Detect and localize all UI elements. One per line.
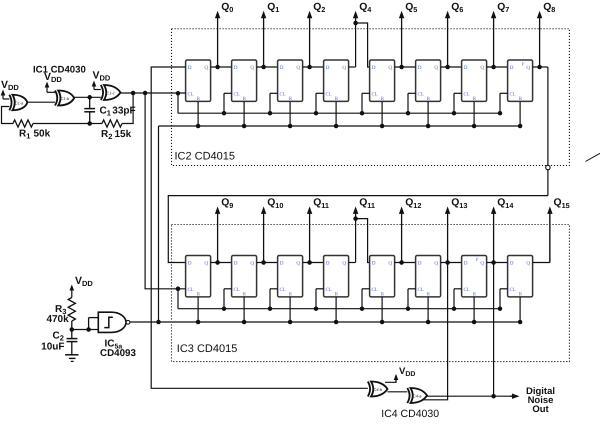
svg-text:F: F xyxy=(476,257,479,263)
svg-text:D: D xyxy=(372,261,376,267)
svg-text:CL: CL xyxy=(234,287,240,293)
svg-text:Q: Q xyxy=(526,65,530,71)
svg-text:IC1-b: IC1-b xyxy=(59,96,70,101)
svg-text:IC1-a: IC1-a xyxy=(14,101,25,106)
svg-text:33pF: 33pF xyxy=(112,106,135,117)
svg-text:CL: CL xyxy=(372,287,378,293)
svg-text:Q: Q xyxy=(526,261,530,267)
svg-text:D: D xyxy=(418,65,422,71)
svg-text:CL: CL xyxy=(418,91,424,97)
svg-text:Q: Q xyxy=(434,65,438,71)
svg-text:Q: Q xyxy=(388,65,392,71)
svg-text:CL: CL xyxy=(280,91,286,97)
svg-text:CL: CL xyxy=(326,91,332,97)
svg-text:D: D xyxy=(464,261,468,267)
svg-text:F: F xyxy=(522,61,525,67)
svg-text:D: D xyxy=(418,261,422,267)
svg-text:CL: CL xyxy=(464,91,470,97)
svg-text:IC1 CD4030: IC1 CD4030 xyxy=(33,65,86,76)
svg-text:CL: CL xyxy=(234,91,240,97)
svg-text:D: D xyxy=(280,261,284,267)
svg-text:IC3 CD4015: IC3 CD4015 xyxy=(177,343,238,355)
svg-text:IC1-c: IC1-c xyxy=(105,91,115,96)
svg-text:CL: CL xyxy=(510,91,516,97)
svg-text:D: D xyxy=(510,261,514,267)
svg-text:D: D xyxy=(326,65,330,71)
svg-text:Q: Q xyxy=(342,261,346,267)
svg-text:Q: Q xyxy=(250,261,254,267)
svg-text:IC2 CD4015: IC2 CD4015 xyxy=(175,150,236,162)
svg-text:IC4-a: IC4-a xyxy=(412,394,423,399)
svg-text:CD4093: CD4093 xyxy=(100,348,136,359)
svg-text:D: D xyxy=(510,65,514,71)
svg-text:Q: Q xyxy=(480,65,484,71)
svg-text:Q: Q xyxy=(250,65,254,71)
svg-text:D: D xyxy=(464,65,468,71)
svg-text:CL: CL xyxy=(188,287,194,293)
svg-text:Q: Q xyxy=(296,65,300,71)
svg-text:15k: 15k xyxy=(115,129,132,140)
svg-text:Q: Q xyxy=(342,65,346,71)
svg-text:CL: CL xyxy=(280,287,286,293)
svg-text:D: D xyxy=(326,261,330,267)
svg-text:IC4-b: IC4-b xyxy=(372,387,383,392)
svg-text:10uF: 10uF xyxy=(41,342,64,353)
svg-text:50k: 50k xyxy=(34,129,51,140)
svg-text:CL: CL xyxy=(418,287,424,293)
svg-text:Q: Q xyxy=(434,261,438,267)
svg-text:D: D xyxy=(372,65,376,71)
svg-text:D: D xyxy=(188,261,192,267)
svg-text:Q: Q xyxy=(480,261,484,267)
svg-text:CL: CL xyxy=(372,91,378,97)
svg-text:D: D xyxy=(234,261,238,267)
svg-text:D: D xyxy=(188,65,192,71)
svg-text:Q: Q xyxy=(296,261,300,267)
svg-text:D: D xyxy=(280,65,284,71)
svg-text:CL: CL xyxy=(510,287,516,293)
svg-text:IC4 CD4030: IC4 CD4030 xyxy=(381,408,439,420)
svg-text:Q: Q xyxy=(204,65,208,71)
svg-text:470k: 470k xyxy=(46,314,69,325)
svg-text:CL: CL xyxy=(326,287,332,293)
svg-text:Out: Out xyxy=(532,404,549,415)
svg-text:CL: CL xyxy=(464,287,470,293)
svg-text:Q: Q xyxy=(388,261,392,267)
svg-text:CL: CL xyxy=(188,91,194,97)
svg-text:Q: Q xyxy=(204,261,208,267)
svg-text:D: D xyxy=(234,65,238,71)
